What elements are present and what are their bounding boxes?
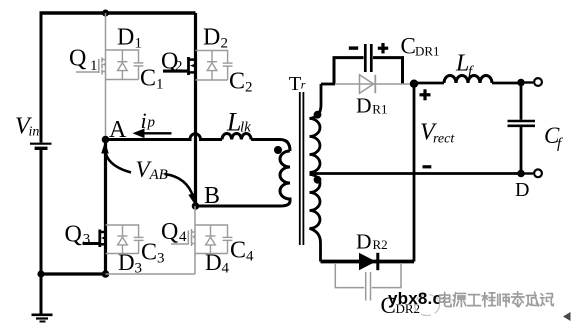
diode DR2 (black) xyxy=(359,253,376,270)
svg-text:DR1: DR1 xyxy=(415,44,440,59)
diode D3 (body diode, gray) xyxy=(118,225,128,254)
secondary upper polarity dot xyxy=(314,111,322,119)
capacitor CDR2 (gray) xyxy=(335,263,401,301)
CDR1 minus sign xyxy=(349,46,358,49)
inductor Lf xyxy=(444,76,492,83)
capacitor CDR1 branch xyxy=(334,58,403,84)
capacitor C4 (gray) xyxy=(195,225,232,254)
svg-text:4: 4 xyxy=(246,249,254,265)
output terminal top xyxy=(521,81,533,83)
svg-text:C: C xyxy=(140,66,156,92)
minus sign Vrect xyxy=(423,165,432,168)
output node top dot xyxy=(517,79,525,87)
svg-text:2: 2 xyxy=(175,59,183,75)
wire Llk to transformer primary top xyxy=(251,140,290,152)
svg-text:p: p xyxy=(147,115,156,131)
wire Lf to output node xyxy=(492,82,521,85)
junction dot bottom left xyxy=(37,270,44,277)
svg-text:R1: R1 xyxy=(372,102,387,117)
node B dot xyxy=(192,202,200,210)
capacitor C1 (gray) xyxy=(106,50,144,80)
svg-text:R2: R2 xyxy=(373,237,388,252)
svg-text:C: C xyxy=(141,240,157,266)
svg-text:C: C xyxy=(401,34,416,59)
svg-text:i: i xyxy=(141,108,147,133)
CDR1 plus sign xyxy=(378,47,388,50)
wire Vrect vertical xyxy=(413,84,416,262)
wire left leg lower (active, black) xyxy=(104,140,107,275)
svg-text:AB: AB xyxy=(149,167,168,183)
transformer Tr primary winding xyxy=(280,151,290,201)
secondary lower polarity dot xyxy=(314,176,322,184)
capacitor C2 (gray) xyxy=(196,51,233,81)
output terminal bottom xyxy=(521,172,533,174)
transistor Q3 (black mosfet symbol) xyxy=(83,230,106,248)
diode D4 (body diode, gray) xyxy=(206,225,216,254)
transistor Q2 (black mosfet symbol) xyxy=(163,57,196,75)
wire DR2 branch bottom xyxy=(321,260,415,264)
capacitor Cf xyxy=(520,83,523,120)
watermark chinese text 电源工程师养成记 (drawn strokes) xyxy=(441,293,555,308)
battery Vin vertical wires xyxy=(40,13,43,274)
wire right leg lower (inactive, gray) xyxy=(194,206,196,274)
svg-text:4: 4 xyxy=(222,261,230,277)
transistor Q4 (gray mosfet symbol) xyxy=(171,229,195,246)
junction dot bottom leg Q3 xyxy=(102,270,110,278)
bottom-right small arrow mark xyxy=(563,312,571,321)
primary polarity dot xyxy=(274,146,282,154)
node A dot xyxy=(102,136,110,144)
node Vrect+ dot xyxy=(410,80,418,88)
arrow VAB curved double arrow xyxy=(105,150,131,173)
node junction dot top rail xyxy=(102,10,109,17)
capacitor C3 (gray) xyxy=(106,225,144,254)
output minus rail from center tap xyxy=(310,172,522,175)
transformer secondary upper winding xyxy=(310,84,322,173)
svg-text:1: 1 xyxy=(156,77,164,93)
svg-text:D: D xyxy=(515,179,529,201)
bottom rail wire black xyxy=(41,272,106,275)
svg-text:4: 4 xyxy=(179,229,187,245)
svg-text:rect: rect xyxy=(433,132,455,147)
diode D2 (body diode, gray) xyxy=(207,51,217,81)
watermark swirl logo xyxy=(415,295,440,316)
svg-text:1: 1 xyxy=(135,36,143,52)
svg-text:in: in xyxy=(29,125,40,140)
svg-text:D: D xyxy=(356,93,372,117)
svg-text:Q: Q xyxy=(69,46,86,72)
svg-text:C: C xyxy=(230,238,246,264)
svg-text:lk: lk xyxy=(240,120,251,136)
svg-text:2: 2 xyxy=(221,36,229,52)
svg-text:2: 2 xyxy=(245,80,253,96)
svg-text:C: C xyxy=(229,69,245,95)
svg-text:3: 3 xyxy=(83,232,91,248)
svg-text:Q: Q xyxy=(65,222,82,248)
transistor Q1 (gray mosfet symbol) xyxy=(76,58,106,75)
svg-text:D: D xyxy=(356,230,372,254)
wire node A to Llk with hop over right leg xyxy=(106,134,223,140)
svg-text:1: 1 xyxy=(90,58,98,74)
top rail wire xyxy=(40,11,196,15)
current arrow ip xyxy=(140,132,172,134)
battery Vin plates xyxy=(30,144,52,149)
transformer core lines xyxy=(299,92,301,245)
svg-text:D: D xyxy=(203,25,220,51)
diode DR1 (gray) xyxy=(335,75,414,93)
node D dot xyxy=(517,170,525,178)
wire left leg upper (inactive, gray) xyxy=(105,13,107,139)
wire node to Lf xyxy=(414,82,444,85)
diode D1 (body diode, gray) xyxy=(117,50,127,80)
wire secondary top to DR1 anode xyxy=(321,83,335,86)
svg-text:3: 3 xyxy=(157,251,165,267)
ground xyxy=(32,274,53,322)
wire right leg (active, black) xyxy=(194,13,197,206)
wire node B to transformer primary bottom xyxy=(196,201,291,206)
plus sign Vrect xyxy=(420,93,431,96)
svg-text:r: r xyxy=(301,78,306,92)
inductor Llk xyxy=(222,133,251,139)
transformer secondary lower winding xyxy=(310,175,321,262)
svg-text:D: D xyxy=(117,25,134,51)
svg-text:Q: Q xyxy=(161,219,178,245)
bottom rail wire gray xyxy=(106,273,196,275)
